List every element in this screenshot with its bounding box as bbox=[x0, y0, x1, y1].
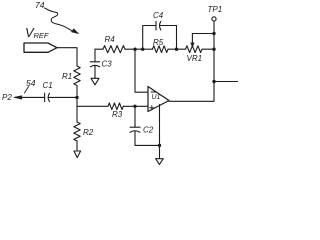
resistor R2 bbox=[74, 122, 80, 141]
svg-text:R4: R4 bbox=[105, 35, 116, 44]
wire down to op-amp minus input bbox=[135, 49, 148, 92]
wire C1 to main node bbox=[48, 96, 77, 98]
wire C2 bottom to ground stub bbox=[135, 144, 160, 146]
resistor R3 bbox=[108, 103, 123, 110]
VREF terminal tag bbox=[24, 43, 57, 52]
resistor R4 bbox=[95, 48, 103, 50]
svg-text:54: 54 bbox=[26, 78, 36, 88]
wire R4 to R5 bbox=[125, 48, 153, 50]
node C4 branch bbox=[141, 48, 144, 51]
ground under C3 bbox=[91, 78, 99, 85]
node ground junction bbox=[158, 144, 161, 147]
ground under R2 bbox=[74, 151, 81, 158]
op-amp ground stub bbox=[159, 105, 161, 159]
resistor R1 bbox=[74, 66, 80, 86]
op-amp output wire bbox=[169, 100, 214, 102]
output tee to right edge bbox=[212, 80, 215, 83]
wire R3 to op-amp plus input bbox=[123, 105, 148, 107]
svg-text:U1: U1 bbox=[152, 94, 161, 101]
svg-text:C2: C2 bbox=[143, 126, 154, 135]
capacitor C3 bbox=[90, 61, 99, 63]
node wiper bbox=[212, 32, 215, 35]
R4 branch corner above C3 bbox=[94, 49, 96, 62]
potentiometer VR1 bbox=[186, 46, 203, 53]
svg-text:VR1: VR1 bbox=[187, 54, 203, 63]
node VR1 right bbox=[212, 48, 215, 51]
capacitor C2 bbox=[134, 106, 136, 127]
wire R2 to ground bbox=[76, 141, 78, 150]
resistor R5 bbox=[153, 46, 169, 53]
svg-text:REF: REF bbox=[34, 31, 49, 40]
leader arrow for 74 bbox=[45, 8, 73, 31]
svg-text:TP1: TP1 bbox=[208, 5, 223, 14]
svg-text:C3: C3 bbox=[102, 60, 113, 69]
ground under op-amp bbox=[156, 159, 164, 165]
node minus branch bbox=[133, 48, 136, 51]
wire R5 to VR1 bbox=[168, 48, 186, 50]
node R3 / C2 bbox=[133, 105, 136, 108]
op-amp U1 bbox=[148, 87, 169, 112]
minus marker over U1 bbox=[151, 91, 156, 93]
wiper wire to output node bbox=[192, 33, 214, 35]
wire node to R3 bbox=[77, 105, 108, 107]
svg-text:P2: P2 bbox=[2, 93, 12, 102]
wire P2 to C1 bbox=[15, 96, 45, 98]
wire to right edge bbox=[214, 81, 238, 83]
wire tag tip to corner and down to R1 bbox=[57, 48, 77, 66]
node R5/C4/VR1 bbox=[175, 48, 178, 51]
leader line for 54 bbox=[25, 87, 29, 94]
plus marker bbox=[150, 106, 155, 110]
capacitor C1 bbox=[44, 93, 46, 101]
svg-text:R2: R2 bbox=[83, 128, 94, 137]
svg-text:R5: R5 bbox=[153, 38, 164, 47]
VR1 wiper arrow bbox=[191, 34, 193, 44]
test point TP1 circle bbox=[212, 17, 216, 21]
svg-text:R3: R3 bbox=[112, 110, 123, 119]
svg-text:74: 74 bbox=[35, 0, 45, 10]
svg-text:C4: C4 bbox=[153, 11, 164, 20]
capacitor C4 loop bbox=[143, 26, 156, 50]
svg-text:C1: C1 bbox=[43, 81, 53, 90]
P2 arrow head bbox=[14, 96, 22, 100]
wire R1 bottom to R2 top bbox=[76, 86, 78, 123]
node junction C1 line bbox=[75, 96, 78, 99]
wire VR1 to output node bbox=[202, 48, 214, 50]
svg-text:R1: R1 bbox=[62, 72, 72, 81]
wire TP1 down output column bbox=[213, 21, 215, 101]
